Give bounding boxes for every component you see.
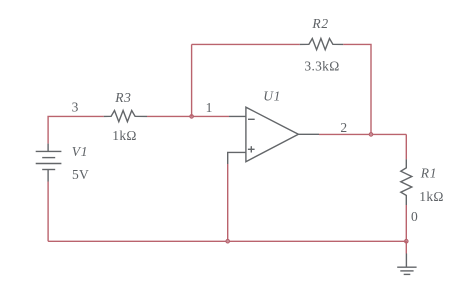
resistor R3 — [104, 111, 147, 122]
svg-text:5V: 5V — [72, 167, 89, 182]
junction (non-inverting input to ground net) — [226, 239, 230, 243]
wire — [147, 115, 229, 117]
junction node 2 — [369, 133, 373, 137]
resistor R2 — [300, 39, 344, 50]
wire — [192, 43, 300, 45]
wire — [48, 240, 406, 242]
wire — [47, 182, 49, 242]
wire — [227, 164, 229, 241]
op-amp U1 — [228, 107, 319, 164]
svg-text:R2: R2 — [311, 16, 328, 31]
svg-text:1kΩ: 1kΩ — [419, 189, 443, 204]
resistor R1 — [401, 159, 412, 205]
wire — [405, 241, 407, 253]
svg-text:R1: R1 — [420, 166, 437, 181]
wire — [319, 133, 406, 135]
svg-text:R3: R3 — [114, 90, 131, 105]
svg-text:1kΩ: 1kΩ — [112, 128, 136, 143]
svg-text:U1: U1 — [263, 89, 281, 104]
svg-text:3: 3 — [72, 100, 79, 115]
svg-text:V1: V1 — [72, 144, 88, 159]
wire — [48, 116, 104, 143]
battery V1 — [36, 144, 62, 182]
svg-text:1: 1 — [206, 100, 213, 115]
junction (output to ground net) — [405, 239, 409, 243]
wire — [405, 134, 407, 159]
junction node 1 — [190, 115, 194, 119]
wire — [343, 44, 371, 134]
svg-text:3.3kΩ: 3.3kΩ — [304, 58, 339, 73]
wire — [191, 44, 193, 116]
wire — [405, 205, 407, 241]
ground — [397, 254, 416, 275]
svg-text:0: 0 — [411, 209, 418, 224]
svg-text:2: 2 — [340, 120, 347, 135]
